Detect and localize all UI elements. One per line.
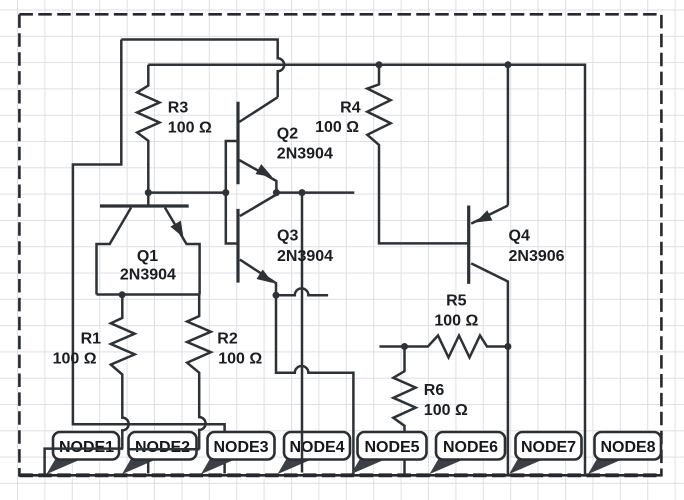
transistor Q3 base lead: [226, 193, 238, 244]
svg-text:NODE4: NODE4: [289, 439, 344, 456]
wire node4 vertical through box: [301, 430, 304, 473]
node dot Q2/Q3 base: [222, 189, 229, 196]
node dot Q3 emitter: [273, 292, 280, 299]
node dot R3/Q1 base: [145, 189, 152, 196]
wire Q3 emitter down and right to x=353 with hop over x=302: [276, 295, 353, 475]
node dot Q2 emitter / Q3 collector: [273, 189, 280, 196]
wire Q1 bottom rail y=294.5: [97, 293, 200, 296]
transistor Q4 collector: [471, 263, 508, 475]
resistor R5: [379, 336, 508, 358]
node dot R5 right: [504, 343, 511, 350]
arrow Q3 emitter: [257, 270, 274, 284]
node NODE6 tail: [430, 459, 463, 474]
over-box wires: [45, 430, 302, 475]
svg-text:NODE7: NODE7: [521, 439, 576, 456]
svg-text:R3: R3: [168, 99, 189, 116]
svg-text:Q3: Q3: [277, 228, 298, 245]
node NODE2 box: [129, 432, 197, 460]
svg-text:100 Ω: 100 Ω: [434, 313, 478, 330]
svg-text:100 Ω: 100 Ω: [315, 119, 359, 136]
svg-text:R6: R6: [424, 382, 445, 399]
node callout boxes: [47, 432, 662, 474]
wire base rail y=192.6 right stub: [276, 191, 354, 194]
resistor R1 with hop over bus: [111, 295, 135, 449]
svg-text:100 Ω: 100 Ω: [218, 351, 262, 368]
svg-text:Q4: Q4: [509, 228, 530, 245]
node NODE3 box: [208, 432, 275, 460]
svg-text:R1: R1: [81, 331, 102, 348]
resistor R4: [367, 65, 468, 244]
svg-text:NODE8: NODE8: [600, 439, 655, 456]
transistor Q4 bar: [467, 206, 470, 284]
transistor Q1 base lead: [147, 193, 150, 205]
transistor Q2 emitter: [239, 160, 276, 193]
transistor Q1 collector: [97, 208, 132, 295]
wire NODE3 stub below box: [223, 460, 226, 474]
svg-text:100 Ω: 100 Ω: [168, 119, 212, 136]
transistor Q3 bar: [236, 209, 239, 283]
node dot R1 top: [119, 291, 126, 298]
wire second rail y=64.8 with hop over x=277.7: [148, 65, 585, 475]
node NODE7 box: [516, 432, 582, 460]
node NODE5 tail: [351, 459, 384, 474]
arrow Q4 emitter (PNP, points into bar): [476, 210, 493, 222]
node NODE5 box: [358, 432, 427, 460]
transistor Q2 base lead: [226, 141, 238, 193]
transistor Q1 emitter: [165, 208, 200, 295]
node NODE8 box: [595, 432, 662, 460]
svg-text:NODE2: NODE2: [135, 439, 190, 456]
wire node4 vertical x=302 upper part: [301, 193, 304, 430]
wire NODE1 strike and drop to border: [45, 449, 124, 475]
arrow Q2 emitter: [256, 164, 273, 177]
svg-text:R4: R4: [340, 99, 361, 116]
node dot R4 top: [376, 61, 383, 68]
resistor R6: [393, 347, 415, 433]
node NODE2 tail: [122, 459, 155, 474]
svg-text:R2: R2: [217, 331, 238, 348]
svg-text:NODE5: NODE5: [364, 439, 419, 456]
wire Q4 emitter up: [507, 65, 510, 206]
transistor Q2 collector: [239, 97, 278, 122]
svg-text:Q1: Q1: [137, 248, 158, 265]
svg-text:Q2: Q2: [277, 126, 298, 143]
transistor Q3 emitter: [240, 260, 276, 296]
node NODE7 tail: [509, 459, 542, 474]
svg-text:2N3906: 2N3906: [509, 248, 565, 265]
wire NODE2 strike: [128, 448, 199, 451]
arrow Q1 emitter: [170, 221, 183, 238]
resistor R2 with hop over bus: [187, 295, 211, 450]
node dot NODE4 branch: [299, 189, 306, 196]
node NODE4 box: [284, 432, 350, 460]
svg-text:2N3904: 2N3904: [277, 248, 333, 265]
emitter arrows: [170, 164, 492, 283]
transistor Q4 emitter: [471, 206, 508, 224]
wire base rail y=192.6 left: [148, 191, 226, 194]
node dot R5/R6: [401, 343, 408, 350]
node dot Q4 emitter rail: [504, 61, 511, 68]
transistor Q2 bar: [236, 102, 239, 184]
wire y=295.2 stub with hop over x=302: [276, 288, 328, 295]
svg-text:R5: R5: [446, 292, 467, 309]
svg-text:2N3904: 2N3904: [120, 266, 176, 283]
wire top horizontal to Q2 collector: [121, 40, 284, 98]
node NODE1 box: [53, 432, 119, 460]
svg-text:NODE6: NODE6: [443, 439, 498, 456]
resistor R3: [137, 65, 159, 193]
transistor Q3 collector: [240, 195, 277, 217]
node NODE6 box: [436, 432, 505, 460]
node NODE2 stub to border: [147, 460, 150, 474]
svg-text:2N3904: 2N3904: [277, 146, 333, 163]
wire top loop: from top wire down left side to bus y=424 ending at NODE3: [73, 40, 225, 433]
node NODE8 tail: [588, 459, 621, 474]
svg-text:100 Ω: 100 Ω: [424, 402, 468, 419]
node NODE3 tail: [201, 459, 234, 474]
node NODE4 tail: [278, 459, 311, 474]
wire NODE5 stub below box: [403, 460, 406, 474]
svg-text:100 Ω: 100 Ω: [53, 351, 97, 368]
transistor Q1 base bar: [100, 204, 189, 207]
node NODE1 tail: [47, 459, 80, 474]
svg-text:NODE3: NODE3: [213, 439, 268, 456]
